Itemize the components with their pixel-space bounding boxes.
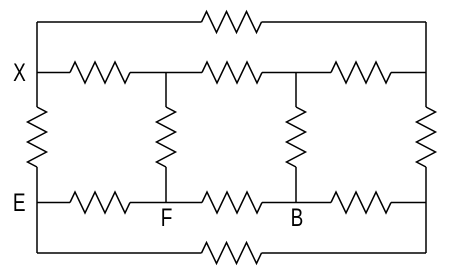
wire F branch lower <box>165 167 167 203</box>
svg-text:F: F <box>161 203 173 231</box>
node E label <box>13 188 26 216</box>
wire B branch lower <box>295 167 297 203</box>
node F label <box>161 203 173 231</box>
resistor F-vertical <box>157 107 176 167</box>
resistor E-row middle <box>202 192 262 213</box>
wire right edge upper <box>425 22 427 107</box>
svg-text:X: X <box>13 58 26 86</box>
resistor E-row right <box>331 192 391 213</box>
resistor left-vertical <box>28 107 47 167</box>
node X label <box>13 58 26 86</box>
wire E rail seg3 <box>262 202 331 204</box>
resistor X-row right <box>331 62 391 83</box>
svg-text:B: B <box>291 203 304 231</box>
wire E rail seg4 <box>391 202 426 204</box>
wire top rail left <box>37 21 202 23</box>
resistor X-row left <box>70 62 130 83</box>
resistor right-vertical <box>417 107 436 167</box>
wire left edge lower <box>36 167 38 253</box>
resistor B-vertical <box>287 107 306 167</box>
svg-text:E: E <box>13 188 26 216</box>
wire E rail seg2 <box>130 202 202 204</box>
wire left edge upper <box>36 22 38 107</box>
wire right edge lower <box>425 167 427 253</box>
wire X rail seg2 <box>130 72 202 74</box>
resistor X-row middle <box>202 62 262 83</box>
wire bottom rail right <box>262 252 427 254</box>
wire X rail seg4 <box>391 72 426 74</box>
node B label <box>291 203 304 231</box>
wire B branch upper <box>295 73 297 108</box>
wire E rail seg1 <box>37 202 70 204</box>
wire bottom rail left <box>37 252 202 254</box>
wire X rail seg3 <box>262 72 331 74</box>
wire top rail right <box>262 21 427 23</box>
wire F branch upper <box>165 73 167 108</box>
resistor R-top <box>202 12 262 33</box>
wire X rail seg1 <box>37 72 70 74</box>
resistor E-row left <box>70 192 130 213</box>
resistor R-bottom <box>202 243 262 264</box>
